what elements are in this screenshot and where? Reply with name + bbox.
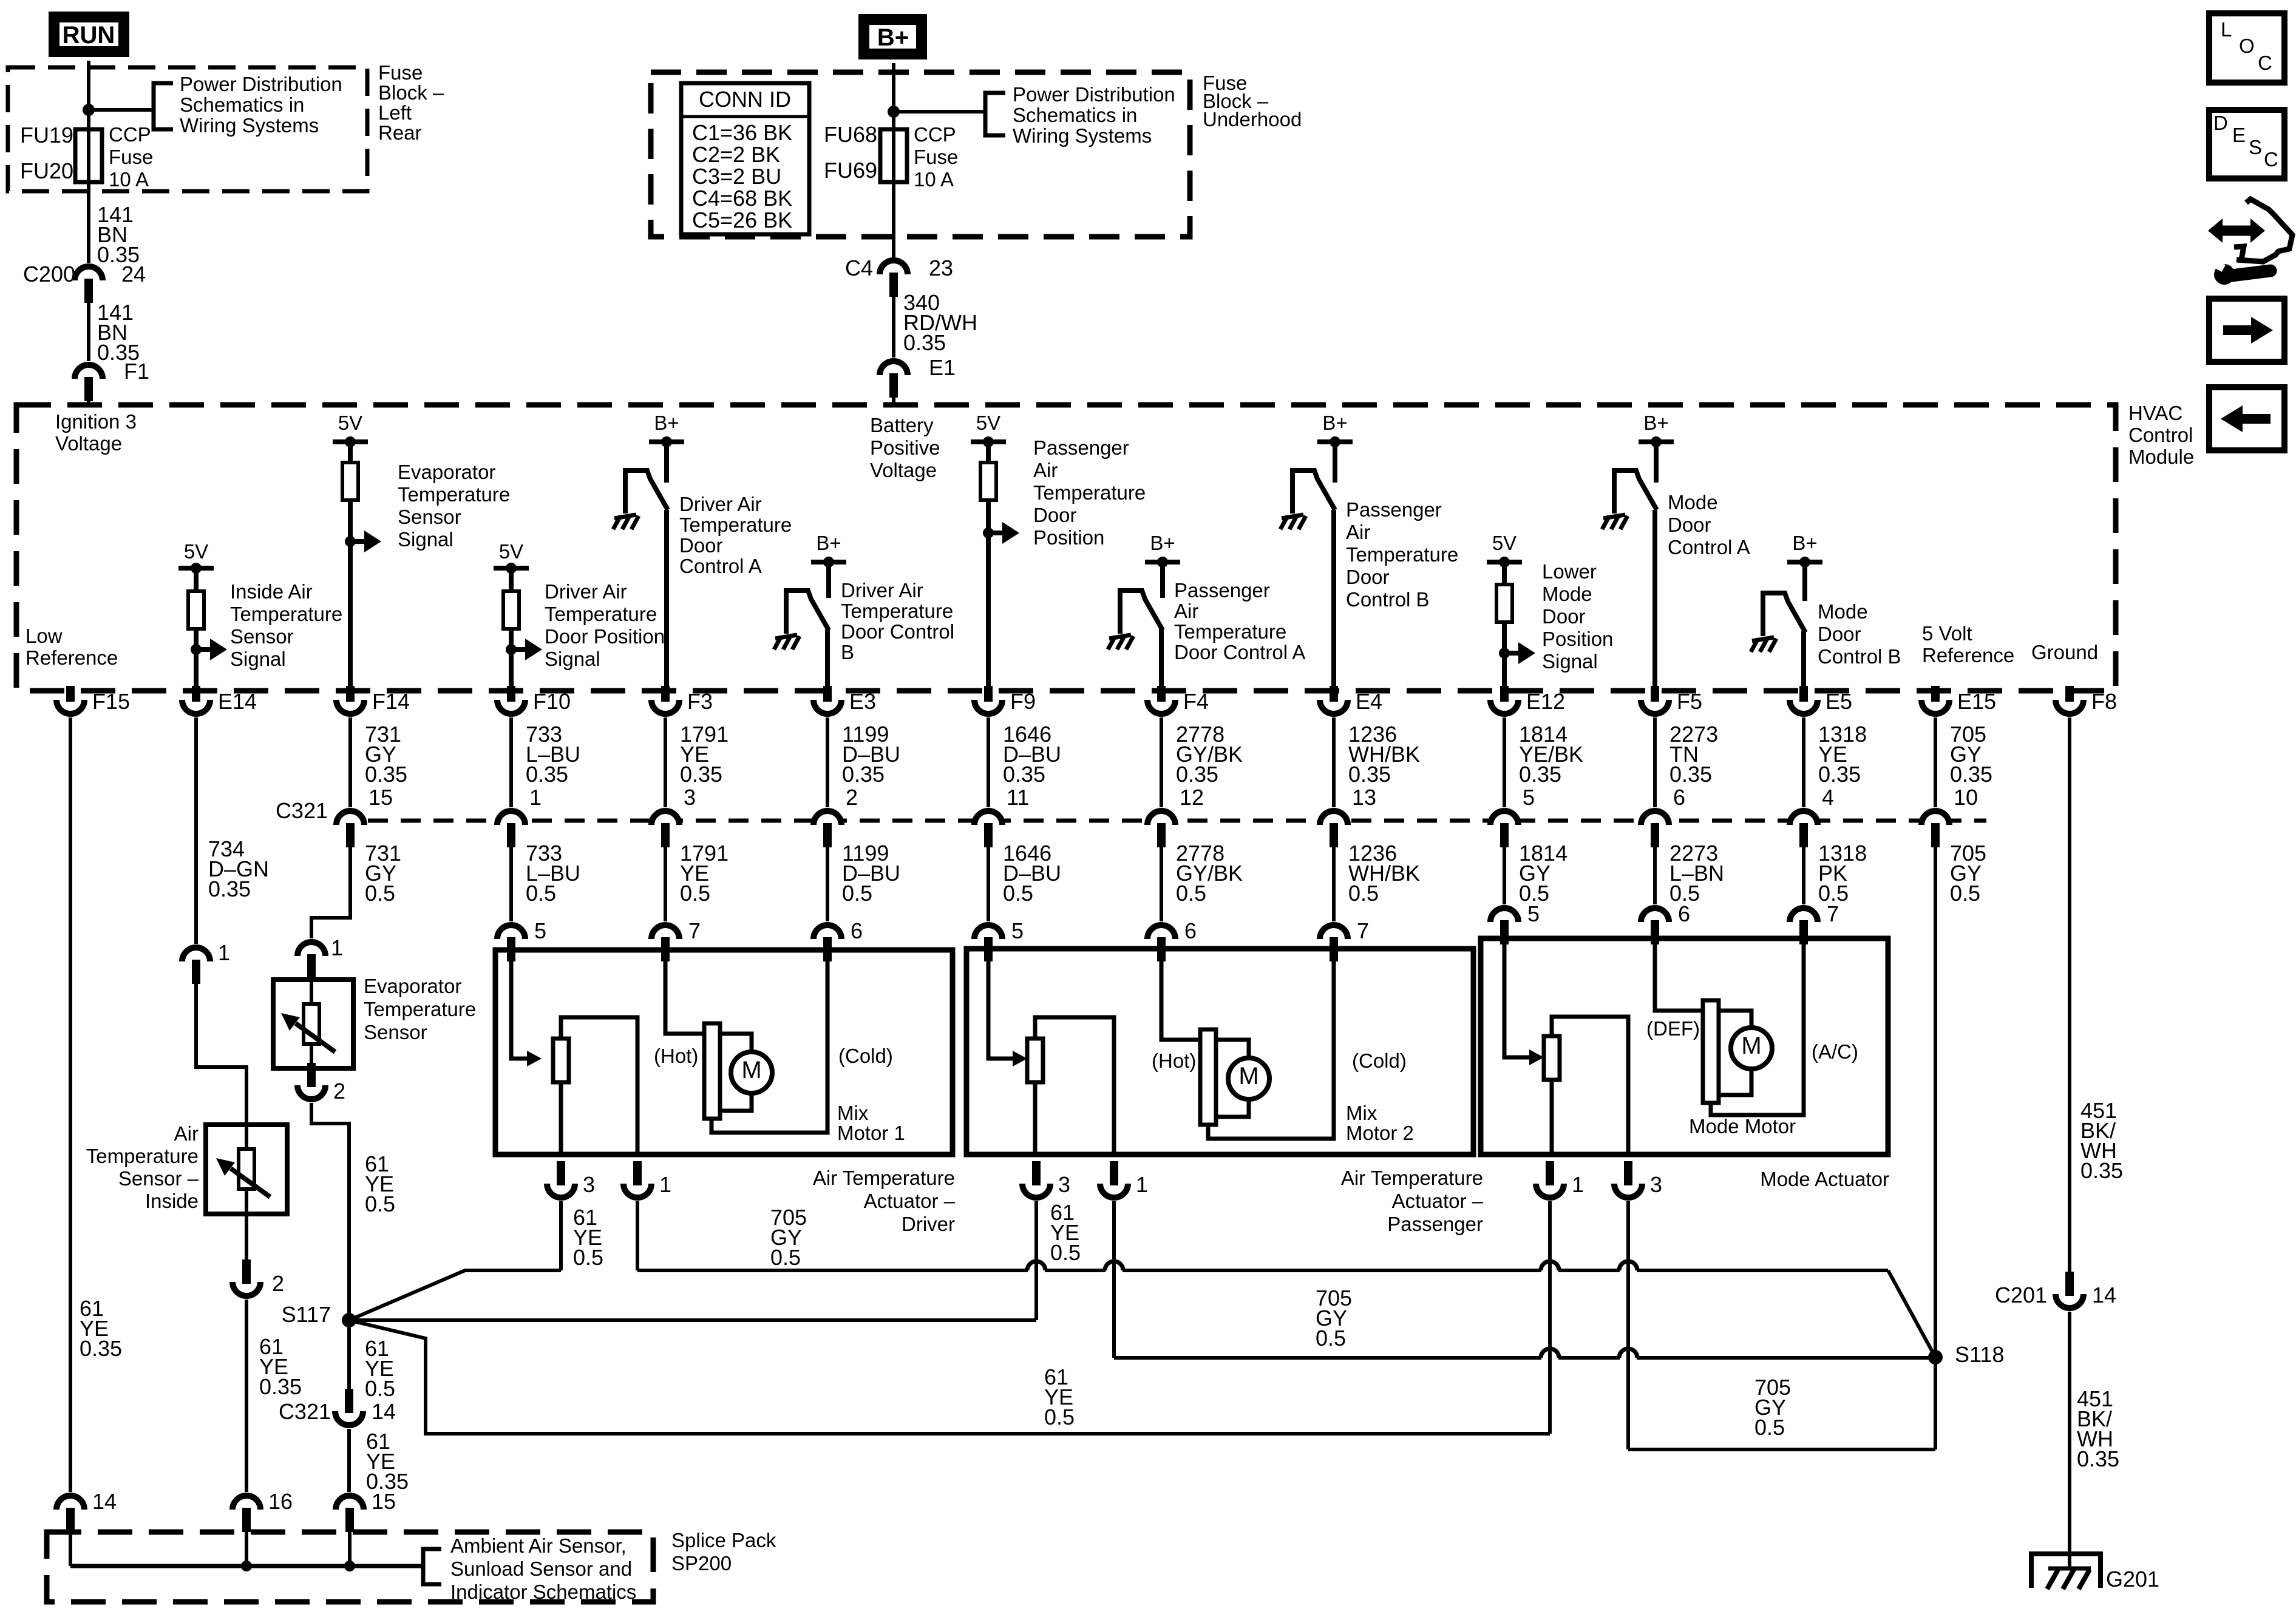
mode actuator potentiometer wiper feed	[1504, 938, 1529, 1057]
fuse block left rear dashed box	[8, 67, 367, 191]
connector actuator pin 6 column E3	[813, 925, 841, 939]
svg-text:(Cold): (Cold)	[838, 1045, 893, 1067]
wire label 340 RD/WH 0.35	[892, 297, 895, 358]
connector C321 pin 2 column E3	[813, 811, 841, 825]
wire S117 to driver actuator pin 3	[349, 1270, 561, 1320]
driver mix motor 1 hot feed	[665, 950, 704, 1034]
driver actuator potentiometer	[553, 1039, 569, 1082]
svg-text:Door Control: Door Control	[841, 620, 954, 643]
svg-text:Air: Air	[174, 1122, 199, 1145]
svg-text:Fuse: Fuse	[914, 146, 958, 168]
svg-text:Passenger: Passenger	[1387, 1213, 1483, 1235]
svg-text:RUN: RUN	[63, 22, 115, 49]
svg-text:E4: E4	[1356, 689, 1382, 714]
svg-text:Signal: Signal	[545, 648, 600, 670]
svg-text:0.5: 0.5	[1003, 881, 1033, 906]
connector actuator pin 6 column F4	[1147, 925, 1175, 939]
svg-text:C200: C200	[23, 262, 75, 286]
svg-text:Temperature: Temperature	[1033, 481, 1146, 504]
svg-text:Signal: Signal	[398, 528, 453, 551]
svg-text:0.5: 0.5	[365, 1192, 395, 1216]
svg-text:Temperature: Temperature	[1346, 543, 1458, 566]
svg-text:Motor 1: Motor 1	[837, 1122, 905, 1144]
svg-text:0.35: 0.35	[365, 762, 407, 787]
module internal 5V passenger air temp door position F9	[971, 439, 1006, 444]
svg-text:Evaporator: Evaporator	[398, 461, 495, 483]
wire E3 upper 1199 D–BU 0.35	[826, 717, 829, 807]
svg-text:FU19: FU19	[20, 123, 73, 147]
svg-text:Sensor: Sensor	[230, 625, 294, 648]
connector pin 1 air temperature sensor	[182, 947, 210, 961]
passenger actuator potentiometer	[1027, 1039, 1043, 1082]
svg-text:0.35: 0.35	[1519, 762, 1561, 787]
wire 451 BK/WH 0.35 to ground G201	[2068, 1312, 2071, 1568]
svg-text:Splice Pack: Splice Pack	[671, 1529, 776, 1551]
driver mix motor 1	[704, 1023, 720, 1119]
svg-text:E5: E5	[1826, 689, 1852, 714]
svg-text:C: C	[2258, 52, 2272, 74]
mode motor def feed	[1655, 938, 1703, 1011]
connector actuator pin 5 column F10	[497, 925, 525, 939]
svg-text:Positive: Positive	[870, 436, 940, 459]
connector E1 into HVAC module	[880, 361, 908, 375]
svg-text:10: 10	[1954, 785, 1978, 810]
svg-text:0.35: 0.35	[1669, 762, 1712, 787]
wire E3 lower 1199 D–BU 0.5	[826, 847, 829, 921]
svg-text:L: L	[2221, 18, 2232, 41]
wire F15 low reference 61 YE 0.35	[69, 717, 72, 1492]
icon box LOC	[2209, 13, 2284, 83]
svg-text:Sensor –: Sensor –	[118, 1167, 199, 1190]
svg-text:Air Temperature: Air Temperature	[1341, 1167, 1483, 1189]
svg-text:CCP: CCP	[914, 123, 956, 146]
module pin E4	[1320, 700, 1348, 714]
svg-text:Temperature: Temperature	[230, 603, 342, 625]
svg-text:1: 1	[1136, 1172, 1148, 1197]
svg-text:Ignition 3: Ignition 3	[55, 410, 137, 433]
svg-text:7: 7	[1827, 901, 1839, 926]
svg-text:Sunload Sensor and: Sunload Sensor and	[450, 1558, 632, 1580]
module pin F15	[56, 700, 84, 714]
svg-text:3: 3	[1058, 1172, 1070, 1197]
svg-text:B+: B+	[877, 24, 909, 51]
wire 61 YE 0.5 evaporator sensor to S117	[311, 1103, 349, 1315]
passenger mix motor 2 hot feed	[1161, 950, 1200, 1040]
wire bus 705 GY 0.5 driver pin 1 to S118	[637, 1269, 1028, 1272]
mode motor ac feed	[1711, 938, 1804, 1115]
module pin E5	[1790, 700, 1818, 714]
connector actuator pin 5 column F9	[974, 925, 1002, 939]
svg-text:Indicator Schematics: Indicator Schematics	[450, 1581, 636, 1603]
svg-text:B+: B+	[1322, 412, 1347, 434]
junction node fuse feed left	[83, 104, 95, 116]
wire F5 lower 2273 L–BN 0.5	[1653, 847, 1657, 904]
svg-text:0.5: 0.5	[1348, 881, 1379, 906]
svg-text:5V: 5V	[338, 412, 362, 434]
connector C321 pin 12 column F4	[1147, 811, 1175, 825]
svg-text:0.5: 0.5	[365, 881, 395, 906]
svg-text:Temperature: Temperature	[364, 998, 476, 1020]
svg-text:Voltage: Voltage	[870, 459, 937, 481]
svg-text:0.5: 0.5	[1050, 1240, 1081, 1265]
svg-text:Door: Door	[679, 534, 723, 557]
svg-text:Passenger: Passenger	[1346, 498, 1442, 521]
wire F3 upper 1791 YE 0.35	[664, 717, 667, 807]
passenger actuator pin 1	[1100, 1184, 1128, 1198]
svg-text:Door: Door	[1346, 566, 1390, 588]
wire 61 YE 0.35 air sensor to splice pack	[245, 1300, 248, 1492]
svg-text:Signal: Signal	[230, 648, 286, 670]
svg-text:(Hot): (Hot)	[1152, 1049, 1196, 1072]
connector actuator pin 6 column F5	[1641, 908, 1669, 922]
wire branch to reference bracket	[89, 108, 154, 112]
svg-text:Temperature: Temperature	[545, 603, 657, 625]
svg-text:1: 1	[218, 940, 230, 965]
svg-text:(A/C): (A/C)	[1812, 1040, 1858, 1063]
thermistor evaporator temperature sensor	[304, 1004, 319, 1044]
fuse block underhood dashed box	[651, 72, 1190, 237]
svg-text:5V: 5V	[499, 540, 523, 563]
svg-text:5 Volt: 5 Volt	[1922, 622, 1972, 645]
svg-text:0.35: 0.35	[1003, 762, 1045, 787]
svg-text:M: M	[741, 1057, 761, 1083]
svg-text:B+: B+	[1792, 532, 1817, 554]
svg-text:F10: F10	[533, 689, 571, 714]
svg-text:0.5: 0.5	[365, 1376, 395, 1401]
wire RUN feed down	[87, 61, 90, 263]
driver mix motor 1 cold feed	[712, 950, 827, 1133]
wire S117 to passenger actuator pin 3	[349, 1318, 1036, 1322]
driver actuator pin 1	[623, 1184, 651, 1198]
svg-text:Control A: Control A	[679, 555, 762, 577]
svg-text:Actuator –: Actuator –	[864, 1190, 956, 1212]
wire E4 upper 1236 WH/BK 0.35	[1332, 717, 1336, 807]
svg-text:Schematics in: Schematics in	[180, 93, 304, 116]
svg-text:Block –: Block –	[378, 81, 444, 104]
svg-text:F9: F9	[1010, 689, 1036, 714]
svg-text:(Cold): (Cold)	[1352, 1049, 1407, 1072]
svg-text:Driver: Driver	[902, 1213, 955, 1235]
module pin E3	[813, 700, 841, 714]
svg-text:C2=2 BK: C2=2 BK	[692, 142, 780, 167]
svg-text:SP200: SP200	[671, 1552, 732, 1575]
svg-text:11: 11	[1007, 785, 1029, 810]
connector pin 16 splice pack	[233, 1496, 260, 1510]
svg-text:1: 1	[331, 935, 343, 960]
svg-text:Temperature: Temperature	[679, 514, 792, 536]
svg-text:Underhood: Underhood	[1203, 108, 1302, 131]
svg-text:Mix: Mix	[837, 1102, 869, 1124]
svg-text:Driver Air: Driver Air	[841, 579, 923, 602]
svg-text:Wiring Systems: Wiring Systems	[180, 114, 319, 137]
svg-text:2: 2	[846, 785, 858, 810]
svg-text:Motor 2: Motor 2	[1346, 1122, 1414, 1144]
module internal B+ switch passenger air temp door control B E4	[1317, 439, 1353, 444]
connector C321 pin 3 column F3	[651, 811, 679, 825]
module pin F8	[2056, 700, 2084, 714]
connector C321 pin 10 column E15	[1921, 811, 1949, 825]
connector C321 pin 4 column E5	[1790, 811, 1818, 825]
svg-text:0.5: 0.5	[573, 1245, 603, 1270]
HVAC control module dashed box	[16, 405, 2116, 691]
svg-text:0.5: 0.5	[1950, 881, 1980, 906]
svg-text:C4: C4	[845, 256, 873, 280]
connector C4 pin 23	[880, 260, 908, 274]
junction node fuse feed underhood	[888, 106, 900, 118]
svg-text:C201: C201	[1995, 1283, 2047, 1307]
wire E4 lower 1236 WH/BK 0.5	[1332, 847, 1336, 921]
connector C321 pin 6 column F5	[1641, 811, 1669, 825]
svg-text:0.35: 0.35	[842, 762, 885, 787]
wire F3 lower 1791 YE 0.5	[664, 847, 667, 921]
svg-text:C5=26 BK: C5=26 BK	[692, 208, 792, 232]
svg-text:F3: F3	[687, 689, 713, 714]
svg-text:FU69: FU69	[824, 158, 877, 183]
connector C201 pin 14	[2056, 1294, 2084, 1308]
thermistor air temperature sensor inside	[239, 1149, 254, 1189]
svg-text:Sensor: Sensor	[364, 1021, 427, 1043]
svg-text:13: 13	[1352, 785, 1376, 810]
connector C321 pin 14 below S117	[335, 1411, 363, 1425]
wire E14 734 D-GN 0.35	[194, 717, 198, 944]
svg-text:O: O	[2239, 35, 2255, 57]
svg-text:Reference: Reference	[1922, 644, 2014, 666]
svg-text:0.5: 0.5	[1316, 1326, 1346, 1351]
svg-text:Door: Door	[1033, 504, 1077, 526]
svg-text:1: 1	[659, 1172, 671, 1197]
svg-text:Fuse: Fuse	[109, 146, 153, 168]
wire B+ feed down	[892, 63, 895, 257]
connector pin 1 evaporator temperature sensor	[297, 942, 325, 956]
svg-text:(DEF): (DEF)	[1646, 1017, 1700, 1040]
svg-text:0.5: 0.5	[1176, 881, 1206, 906]
wire jog to air temperature sensor	[196, 984, 246, 1125]
passenger actuator pin 3	[1022, 1184, 1050, 1198]
svg-text:Driver Air: Driver Air	[545, 580, 627, 603]
air temperature actuator passenger box	[966, 949, 1473, 1154]
svg-text:Lower: Lower	[1542, 560, 1597, 583]
svg-text:7: 7	[688, 918, 701, 943]
svg-text:CONN ID: CONN ID	[699, 87, 791, 112]
svg-text:Evaporator: Evaporator	[364, 975, 461, 997]
module pin F3	[651, 700, 679, 714]
connector C321 pin 1 column F10	[497, 811, 525, 825]
svg-text:S117: S117	[282, 1302, 331, 1327]
module internal 5V driver air temp door position F10	[494, 566, 529, 571]
svg-text:Door: Door	[1542, 605, 1586, 628]
svg-text:F15: F15	[92, 689, 130, 714]
CONN ID table	[681, 83, 809, 234]
svg-text:0.5: 0.5	[1044, 1405, 1075, 1429]
mode actuator potentiometer	[1544, 1036, 1560, 1080]
connector F1 into HVAC module	[75, 365, 103, 379]
connector pin 14 splice pack	[56, 1496, 84, 1510]
svg-text:F4: F4	[1183, 689, 1209, 714]
wire F4 upper 2778 GY/BK 0.35	[1160, 717, 1163, 807]
reference bracket ambient air sensor schematics	[423, 1549, 441, 1584]
icon box arrow right	[2209, 299, 2284, 362]
svg-text:0.35: 0.35	[80, 1336, 122, 1361]
svg-text:5V: 5V	[976, 412, 1000, 434]
wire F4 lower 2778 GY/BK 0.5	[1160, 847, 1163, 921]
wire 61 YE 0.35 below C321	[347, 1429, 351, 1492]
svg-text:Fuse: Fuse	[378, 61, 423, 84]
svg-text:6: 6	[1678, 901, 1690, 926]
svg-text:Control A: Control A	[1668, 536, 1750, 558]
svg-text:5V: 5V	[184, 540, 208, 563]
mode actuator pin 3	[1614, 1184, 1642, 1198]
splice pack internal bus wires	[69, 1532, 72, 1566]
mode actuator box	[1481, 938, 1888, 1154]
svg-text:HVAC: HVAC	[2128, 402, 2182, 424]
svg-text:5: 5	[1011, 918, 1024, 943]
wire F5 upper 2273 TN 0.35	[1653, 717, 1657, 807]
svg-text:E14: E14	[218, 689, 257, 714]
module pin E15	[1921, 700, 1949, 714]
svg-text:Mode: Mode	[1542, 583, 1592, 605]
svg-text:6: 6	[1184, 918, 1197, 943]
module pin E14	[182, 700, 210, 714]
svg-text:Air: Air	[1033, 459, 1058, 481]
svg-text:0.5: 0.5	[526, 881, 556, 906]
connector pin 2 air temperature sensor	[245, 1214, 248, 1263]
air temperature sensor inside box	[206, 1125, 287, 1214]
svg-text:4: 4	[1822, 785, 1834, 810]
svg-text:10 A: 10 A	[109, 168, 149, 191]
driver actuator potentiometer wiper feed	[511, 950, 527, 1059]
svg-text:Air Temperature: Air Temperature	[813, 1167, 955, 1189]
svg-text:Mode Motor: Mode Motor	[1689, 1115, 1796, 1137]
wire E5 lower 1318 PK 0.5	[1802, 847, 1805, 904]
svg-text:Mode Actuator: Mode Actuator	[1760, 1168, 1889, 1190]
wire E15 upper 705 GY 0.35	[1934, 717, 1937, 807]
svg-text:Mode: Mode	[1668, 491, 1718, 514]
svg-text:S118: S118	[1955, 1342, 2004, 1367]
svg-text:0.35: 0.35	[680, 762, 722, 787]
svg-text:B+: B+	[1643, 412, 1668, 434]
svg-text:3: 3	[684, 785, 696, 810]
ground G201	[2031, 1554, 2101, 1588]
svg-text:Passenger: Passenger	[1174, 579, 1270, 602]
connector actuator pin 7 column F3	[651, 925, 679, 939]
wire E15 lower 705 GY 0.5 down to S118	[1934, 847, 1937, 1357]
svg-text:Temperature: Temperature	[1174, 620, 1286, 643]
svg-text:Ambient Air Sensor,: Ambient Air Sensor,	[450, 1534, 627, 1557]
wire bus 705 GY 0.5 passenger pin 1 to S118	[1114, 1356, 1541, 1360]
mode motor	[1703, 1000, 1719, 1103]
svg-text:Left: Left	[378, 101, 412, 124]
svg-text:G201: G201	[2106, 1567, 2159, 1592]
connector actuator pin 7 column E5	[1790, 908, 1818, 922]
passenger mix motor 2 cold feed	[1208, 950, 1334, 1139]
module internal B+ switch mode door control A F5	[1639, 439, 1674, 444]
svg-text:C321: C321	[276, 798, 328, 823]
module internal B+ switch passenger air temp door control A F4	[1145, 560, 1180, 564]
power box RUN ignition feed	[49, 12, 129, 57]
svg-text:Sensor: Sensor	[398, 506, 461, 528]
svg-text:(Hot): (Hot)	[654, 1045, 698, 1067]
svg-text:5: 5	[1527, 901, 1540, 926]
svg-text:0.5: 0.5	[680, 881, 710, 906]
splice pack SP200 dashed box	[47, 1532, 653, 1602]
fuse FU19 FU20 CCP Fuse 10A left	[75, 129, 102, 182]
air temperature actuator driver box	[495, 950, 953, 1154]
svg-text:M: M	[1238, 1063, 1258, 1090]
reference bracket power distribution left	[154, 83, 173, 129]
driver actuator pin 3	[547, 1184, 575, 1198]
svg-text:Door: Door	[1818, 623, 1861, 645]
svg-text:C321: C321	[279, 1399, 331, 1424]
svg-text:0.35: 0.35	[1348, 762, 1391, 787]
svg-text:3: 3	[1650, 1172, 1662, 1197]
svg-text:12: 12	[1180, 785, 1204, 810]
svg-text:E12: E12	[1526, 689, 1565, 714]
svg-text:1: 1	[1572, 1172, 1584, 1197]
svg-text:M: M	[1741, 1032, 1761, 1059]
wire branch to reference bracket	[894, 110, 985, 114]
svg-text:F14: F14	[372, 689, 410, 714]
svg-text:C1=36 BK: C1=36 BK	[692, 120, 792, 145]
svg-text:10 A: 10 A	[914, 168, 954, 191]
svg-text:S: S	[2249, 136, 2262, 158]
svg-text:Mode: Mode	[1818, 600, 1868, 623]
svg-text:Low: Low	[25, 625, 63, 647]
module pin F14	[336, 700, 364, 714]
connector C321 pin 5 column E12	[1490, 811, 1518, 825]
power box B+ battery feed	[858, 14, 927, 59]
wire F8 ground 451 BK/WH 0.35 upper	[2068, 717, 2071, 1273]
svg-text:B: B	[841, 641, 854, 663]
svg-text:14: 14	[92, 1489, 117, 1514]
svg-text:Ground: Ground	[2031, 641, 2098, 663]
connector pin 15 splice pack	[336, 1496, 364, 1510]
svg-text:C: C	[2264, 148, 2278, 171]
svg-text:Passenger: Passenger	[1033, 436, 1129, 459]
connector C200 pin 24	[75, 266, 103, 280]
icon box DESC	[2209, 110, 2284, 178]
wire F9 upper 1646 D–BU 0.35	[987, 717, 990, 807]
svg-text:Driver Air: Driver Air	[679, 493, 762, 515]
svg-text:Door Position: Door Position	[545, 625, 665, 648]
svg-text:Mix: Mix	[1346, 1102, 1377, 1124]
svg-text:Air: Air	[1174, 600, 1198, 622]
wire label 141 BN 0.35 lower	[87, 303, 90, 361]
svg-text:0.35: 0.35	[259, 1374, 302, 1399]
svg-text:B+: B+	[654, 412, 679, 434]
module internal 5V evaporator temp sensor signal F14	[333, 439, 368, 444]
wire F10 upper 733 L–BU 0.35	[509, 717, 513, 807]
icon box arrow left	[2209, 387, 2284, 450]
connector actuator pin 5 column E12	[1490, 908, 1518, 922]
inline connector C321 dashed line	[335, 819, 1986, 823]
svg-text:Power Distribution: Power Distribution	[1013, 83, 1175, 106]
svg-text:0.35: 0.35	[526, 762, 568, 787]
svg-text:0.35: 0.35	[1950, 762, 1992, 787]
wire F9 lower 1646 D–BU 0.5	[987, 847, 990, 921]
svg-text:B+: B+	[816, 532, 841, 554]
svg-text:Temperature: Temperature	[841, 600, 953, 622]
svg-text:5: 5	[1523, 785, 1535, 810]
svg-text:5: 5	[534, 918, 546, 943]
svg-text:Actuator –: Actuator –	[1392, 1190, 1484, 1212]
svg-text:24: 24	[121, 262, 146, 286]
connector pin 2 evaporator temperature sensor	[297, 1085, 325, 1099]
svg-text:14: 14	[2092, 1283, 2116, 1307]
module internal 5V inside air temp sensor signal E14	[178, 566, 214, 571]
svg-text:C4=68 BK: C4=68 BK	[692, 186, 792, 211]
svg-text:Door: Door	[1668, 514, 1711, 536]
svg-text:Inside: Inside	[145, 1190, 199, 1212]
